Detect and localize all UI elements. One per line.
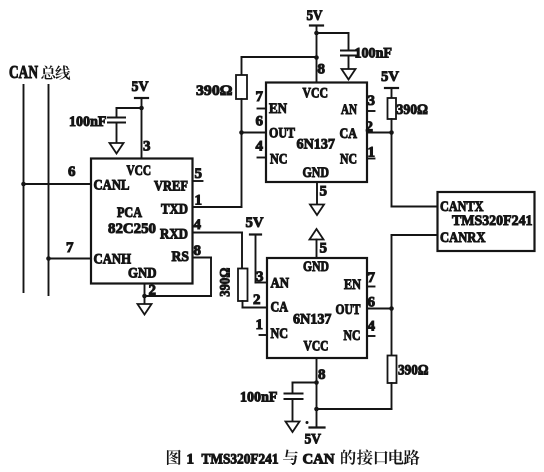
- value label: R3 390Ω (rotated): [218, 268, 234, 297]
- wire: R2 to CANTX net: [391, 119, 393, 207]
- pin stub: U3 EN: [367, 286, 375, 288]
- svg-text:390Ω: 390Ω: [397, 102, 429, 118]
- pin 2 label (U1 GND): [149, 283, 157, 299]
- wire: V1 to U1 pin 3: [141, 98, 143, 159]
- pin 6 label (U3 OUT): [368, 295, 376, 311]
- svg-text:6N137: 6N137: [297, 137, 336, 153]
- wire: V3 to R2: [391, 88, 393, 98]
- svg-text:CAN: CAN: [303, 452, 335, 468]
- svg-text:GND: GND: [303, 259, 329, 275]
- resistor R4 390ohm: [388, 356, 397, 384]
- value label: R2 390Ω: [397, 102, 429, 118]
- svg-text:VCC: VCC: [304, 339, 329, 355]
- ground: U1 ground: [138, 304, 152, 315]
- svg-text:OUT: OUT: [269, 126, 295, 142]
- svg-text:8: 8: [318, 367, 326, 383]
- value label: R1 390Ω: [196, 83, 233, 99]
- U2 label 6N137: [297, 137, 336, 153]
- pin 1 label (U1 TXD): [195, 193, 203, 209]
- svg-text:7: 7: [256, 89, 264, 105]
- svg-text:1: 1: [256, 317, 264, 333]
- U2 label GND: [303, 165, 330, 181]
- wire: U1 GND pin 2 down: [144, 284, 146, 305]
- svg-text:EN: EN: [344, 277, 361, 293]
- svg-text:TMS320F241: TMS320F241: [452, 213, 533, 229]
- U2 label OUT: [269, 126, 295, 142]
- svg-text:5V: 5V: [381, 69, 399, 85]
- svg-text:82C250: 82C250: [108, 221, 156, 237]
- pin stub: U3 NC left: [260, 334, 268, 336]
- U3 label 6N137: [293, 312, 332, 328]
- junction: CANH on bus line 2: [46, 256, 51, 261]
- junction: R1/U2-OUT/TXD node: [239, 130, 244, 135]
- pin 1 label (U3 NC): [256, 317, 264, 333]
- svg-text:CAN: CAN: [9, 62, 38, 82]
- U2 label AN: [341, 102, 357, 118]
- pin 3 label (U2 AN): [368, 93, 376, 109]
- svg-text:390Ω: 390Ω: [398, 363, 429, 379]
- svg-text:AN: AN: [341, 102, 357, 118]
- pin 5 label (U1 VREF): [195, 166, 203, 182]
- svg-text:OUT: OUT: [336, 302, 361, 318]
- pin 1 label (U2 NC): [368, 145, 376, 161]
- pin 7 label (U3 EN): [368, 270, 376, 286]
- svg-text:8: 8: [318, 62, 326, 78]
- ground: C1 ground: [110, 143, 124, 154]
- svg-text:GND: GND: [303, 165, 330, 181]
- wire: CANH to bus line 2: [49, 258, 92, 260]
- svg-text:VCC: VCC: [127, 163, 152, 179]
- pin 4 label (U2 NC): [256, 139, 264, 155]
- svg-text:4: 4: [368, 319, 376, 335]
- wire: U3 OUT to CANRX net: [367, 308, 392, 310]
- svg-text:6: 6: [256, 114, 264, 130]
- resistor R2 390ohm: [388, 98, 397, 119]
- svg-text:RS: RS: [172, 249, 190, 265]
- U3 label EN: [344, 277, 361, 293]
- svg-text:CA: CA: [340, 126, 358, 142]
- U3 label CA: [271, 300, 289, 316]
- pin 2 label (U2 CA): [366, 119, 374, 135]
- U3 label AN: [271, 276, 290, 292]
- pin stub: U1 VREF: [193, 180, 203, 182]
- capacitor C3 100nF: [285, 394, 303, 422]
- svg-text:NC: NC: [340, 152, 357, 168]
- wire: RS to ground node: [145, 258, 212, 297]
- IC U2 6N137 body: [266, 83, 367, 183]
- IC U3 6N137 body: [267, 258, 367, 358]
- U3 label GND: [303, 259, 329, 275]
- pin 4 label (U3 NC): [368, 319, 376, 335]
- net label: CAN bus (CAN 总线): [9, 62, 70, 82]
- ground: C2 ground: [342, 69, 356, 80]
- svg-text:390Ω: 390Ω: [218, 268, 234, 297]
- resistor R1 390ohm: [236, 75, 247, 99]
- U3 label OUT: [336, 302, 361, 318]
- svg-text:GND: GND: [128, 266, 157, 282]
- U3 label NC right: [344, 328, 361, 344]
- ground: U3 GND (up triangle): [310, 229, 324, 240]
- wire: CANL to bus line 1: [24, 183, 92, 185]
- wire: 5V rail to R1: [242, 57, 317, 75]
- wire: U2 CA to CANTX node: [367, 132, 392, 134]
- svg-text:EN: EN: [269, 101, 287, 117]
- wire: V4 to U3 AN: [256, 235, 268, 283]
- svg-text:CANRX: CANRX: [440, 230, 486, 246]
- IC U1 PCA82C250 body: [91, 159, 193, 284]
- svg-text:5: 5: [320, 184, 328, 200]
- pin stub: U2 NC left: [258, 157, 267, 159]
- U1 label RXD: [160, 227, 188, 243]
- svg-text:6N137: 6N137: [293, 312, 332, 328]
- wire: TXD to R1/U2-OUT node: [193, 133, 242, 208]
- U4 label CANRX: [440, 230, 486, 246]
- junction: R2/U2-CA/CANTX node: [389, 130, 394, 135]
- U1 label CANL: [94, 178, 130, 194]
- svg-text:CANH: CANH: [94, 252, 132, 268]
- U1 label VREF: [154, 179, 188, 195]
- pin stub: U2 NC right: [367, 158, 375, 160]
- svg-text:5V: 5V: [246, 215, 264, 231]
- pin 8 label (U1 RS): [194, 243, 202, 259]
- junction: V1/C1 node: [139, 106, 144, 111]
- value label: C3 100nF: [240, 390, 278, 406]
- svg-text:3: 3: [368, 93, 376, 109]
- pin 3 label (U3 AN): [256, 269, 264, 285]
- pin 5 label (U3 GND): [320, 241, 328, 257]
- svg-text:2: 2: [149, 283, 157, 299]
- pin 6 label (U1 CANL): [68, 164, 76, 180]
- U1 label CANH: [94, 252, 132, 268]
- svg-text:100nF: 100nF: [69, 114, 107, 130]
- power 5V V2 (U2 VCC supply): [307, 8, 324, 26]
- svg-text:VREF: VREF: [154, 179, 188, 195]
- svg-text:1: 1: [187, 452, 195, 468]
- IC U4 TMS320F241 body: [438, 192, 535, 251]
- U2 label VCC: [303, 86, 329, 102]
- U1 label VCC: [127, 163, 152, 179]
- power 5V V1 (PCA VCC supply): [132, 79, 149, 98]
- junction: V2/R1-rail node: [314, 55, 319, 60]
- svg-text:7: 7: [368, 270, 376, 286]
- wire: R4 to 5V rail: [317, 383, 392, 409]
- ground: U2 ground: [310, 205, 324, 216]
- resistor R3 390ohm: [238, 269, 248, 302]
- svg-text:CA: CA: [271, 300, 289, 316]
- svg-text:3: 3: [256, 269, 264, 285]
- svg-text:4: 4: [194, 217, 202, 233]
- stray mark near V5: [306, 421, 309, 424]
- wire: U2 GND pin 5 down: [316, 182, 318, 205]
- svg-text:5: 5: [320, 241, 328, 257]
- wire: C1 to V1 node: [117, 108, 142, 118]
- wire: RXD to R3: [193, 233, 243, 269]
- U3 label NC left: [271, 326, 289, 342]
- wire: U2 OUT to node: [242, 132, 267, 134]
- wire: V2 down to U2 pin 8: [316, 26, 318, 83]
- junction: RS/GND node: [142, 294, 147, 299]
- wire: U3 VCC pin 8 down to 5V: [316, 358, 318, 428]
- svg-text:100nF: 100nF: [355, 46, 393, 62]
- wire: U3 GND pin 5 up: [316, 240, 318, 259]
- power 5V V5 (U3 VCC supply): [305, 428, 325, 448]
- U2 label EN: [269, 101, 287, 117]
- wire: CAN bus line 2 (CANH bus): [48, 85, 50, 295]
- caption: 图1 TMS320F241 与 CAN 的接口电路: [167, 449, 420, 467]
- wire: R3 to U3 CA: [243, 301, 268, 308]
- pin 2 label (U3 CA): [253, 292, 261, 308]
- junction: C3 node: [314, 380, 319, 385]
- pin 5 label (U2 GND): [320, 184, 328, 200]
- svg-text:5V: 5V: [307, 8, 323, 24]
- svg-text:5V: 5V: [132, 79, 149, 95]
- svg-text:CANL: CANL: [94, 178, 130, 194]
- pin 7 label (U2 EN): [256, 89, 264, 105]
- svg-text:TXD: TXD: [161, 202, 188, 218]
- U1 label PCA: [117, 205, 142, 221]
- U1 label RS: [172, 249, 190, 265]
- pin 4 label (U1 RXD): [194, 217, 202, 233]
- U2 label NC left: [270, 152, 288, 168]
- ground: C3 ground: [286, 422, 300, 433]
- capacitor C1 100nF: [108, 118, 125, 144]
- pin stub: U3 NC right: [367, 335, 375, 337]
- svg-text:6: 6: [68, 164, 76, 180]
- pin 3 label (U1 VCC): [143, 139, 151, 155]
- svg-text:NC: NC: [271, 326, 289, 342]
- power 5V V3 (R2 pull-up supply): [381, 69, 399, 88]
- wire: C3 branch: [293, 383, 317, 394]
- svg-text:390Ω: 390Ω: [196, 83, 233, 99]
- wire: CANRX from TMS320F241: [392, 235, 438, 356]
- junction: V2/C2 node: [314, 31, 319, 36]
- pin stub: U2 EN: [258, 108, 267, 110]
- U1 label TXD: [161, 202, 188, 218]
- svg-text:TMS320F241: TMS320F241: [202, 452, 279, 468]
- junction: CANL on bus line 1: [21, 182, 26, 187]
- value label: C2 100nF: [355, 46, 393, 62]
- U1 label 82C250: [108, 221, 156, 237]
- junction: 5V rail node: [314, 407, 319, 412]
- capacitor C2 100nF: [341, 51, 356, 70]
- junction: CANRX/U3-OUT node: [389, 306, 394, 311]
- pin 8 label (U3 VCC): [318, 367, 326, 383]
- svg-text:2: 2: [253, 292, 261, 308]
- pin 8 label (U2 VCC): [318, 62, 326, 78]
- U3 label VCC: [304, 339, 329, 355]
- value label: C1 100nF: [69, 114, 107, 130]
- svg-text:100nF: 100nF: [240, 390, 278, 406]
- svg-text:NC: NC: [270, 152, 288, 168]
- power 5V V4 (U3 AN supply): [246, 215, 264, 235]
- value label: R4 390Ω: [398, 363, 429, 379]
- svg-text:5: 5: [195, 166, 203, 182]
- svg-text:PCA: PCA: [117, 205, 142, 221]
- svg-text:7: 7: [66, 240, 74, 256]
- U1 label GND: [128, 266, 157, 282]
- U2 label NC right: [340, 152, 357, 168]
- pin 6 label (U2 OUT): [256, 114, 264, 130]
- svg-text:5V: 5V: [305, 432, 322, 448]
- pin stub: U2 AN: [367, 110, 375, 112]
- svg-text:AN: AN: [271, 276, 290, 292]
- svg-text:3: 3: [143, 139, 151, 155]
- wire: CANTX to TMS320F241: [392, 206, 438, 208]
- wire: R1 bottom to U2 OUT: [241, 99, 243, 133]
- U4 label TMS320F241: [452, 213, 533, 229]
- U4 label CANTX: [440, 199, 484, 215]
- svg-text:VCC: VCC: [303, 86, 329, 102]
- svg-text:RXD: RXD: [160, 227, 188, 243]
- svg-text:4: 4: [256, 139, 264, 155]
- svg-text:NC: NC: [344, 328, 361, 344]
- wire: C2 branch: [317, 33, 349, 51]
- wire: CAN bus line 1 (CANL bus): [23, 85, 25, 292]
- pin 7 label (U1 CANH): [66, 240, 74, 256]
- U2 label CA: [340, 126, 358, 142]
